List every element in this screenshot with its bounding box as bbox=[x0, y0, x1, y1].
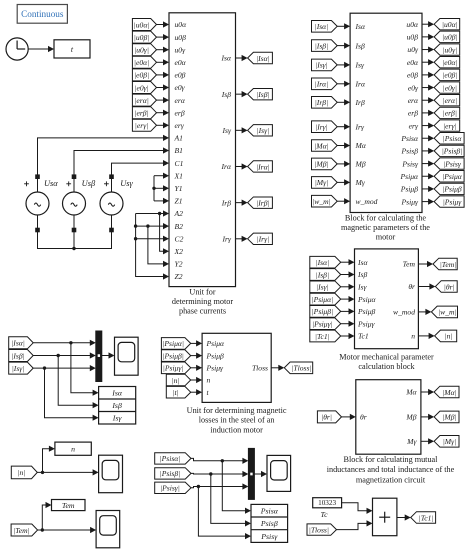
wire Usβ to B1 bbox=[74, 147, 169, 192]
wire U4 to |Mα| bbox=[421, 389, 434, 395]
svg-text:|Psiμβ|: |Psiμβ| bbox=[312, 307, 333, 316]
wire |Tem| to scope bbox=[38, 527, 97, 533]
svg-text:e0β: e0β bbox=[175, 71, 186, 80]
goto tag |Psiμα (U2 output) bbox=[434, 171, 464, 182]
svg-text:Isα: Isα bbox=[221, 54, 232, 63]
block U3 input port labels bbox=[357, 258, 377, 341]
svg-text:e0β: e0β bbox=[407, 71, 418, 80]
wire |Psiμγ| to U3 bbox=[341, 321, 355, 327]
wire |Isα| to mux bbox=[33, 340, 96, 346]
wire U2 to |Psiμα bbox=[422, 173, 434, 179]
svg-text:Mα: Mα bbox=[355, 141, 367, 150]
svg-text:erβ: erβ bbox=[408, 109, 418, 118]
from tag |Psisβ| (scope feed) bbox=[155, 468, 191, 479]
svg-text:e0α: e0α bbox=[407, 58, 419, 67]
svg-text:Isβ: Isβ bbox=[355, 41, 365, 50]
wire U2 to |Psiμβ bbox=[422, 186, 434, 192]
svg-text:Irα: Irα bbox=[221, 162, 232, 171]
svg-text:B1: B1 bbox=[175, 146, 183, 155]
wire A2 to X2 bbox=[160, 214, 169, 255]
wire U2 to |u0α| bbox=[422, 21, 434, 27]
svg-text:erα: erα bbox=[408, 96, 419, 105]
block U1 output port labels bbox=[221, 54, 232, 244]
wire |Tloss| to sum bbox=[337, 520, 373, 529]
svg-text:Block for calculating the: Block for calculating the bbox=[345, 214, 427, 223]
svg-text:Continuous: Continuous bbox=[21, 9, 64, 19]
svg-text:u0α: u0α bbox=[406, 20, 419, 29]
svg-text:|Isα|: |Isα| bbox=[315, 22, 329, 31]
svg-text:|Psiμγ: |Psiμγ bbox=[443, 197, 463, 206]
svg-text:|Psisα: |Psisα bbox=[443, 134, 463, 143]
svg-text:|Tloss|: |Tloss| bbox=[309, 525, 329, 534]
goto tag |Tem| (U3 output) bbox=[433, 258, 457, 270]
wire U3 to |Tem| bbox=[418, 261, 433, 267]
svg-text:|w_m|: |w_m| bbox=[312, 197, 331, 206]
goto tag |Isβ| bbox=[248, 88, 273, 99]
svg-text:Irγ: Irγ bbox=[355, 122, 365, 131]
block U2: Block for calculating the magnetic parameters of the motor bbox=[350, 13, 422, 212]
wire |t| to U5 bbox=[191, 389, 202, 395]
wire U2 to |erγ| bbox=[422, 122, 434, 128]
svg-text:|Psisβ|: |Psisβ| bbox=[160, 469, 181, 478]
from tag |e0β| bbox=[132, 69, 156, 81]
svg-text:Isβ: Isβ bbox=[357, 270, 367, 279]
svg-text:Mγ: Mγ bbox=[355, 178, 366, 187]
svg-text:Usα: Usα bbox=[44, 179, 58, 188]
svg-text:C2: C2 bbox=[175, 234, 184, 243]
svg-text:Mγ: Mγ bbox=[406, 437, 417, 446]
svg-text:|Tem|: |Tem| bbox=[440, 260, 457, 269]
svg-text:Isα: Isα bbox=[357, 258, 368, 267]
wire branch to Psisα display bbox=[222, 461, 251, 514]
svg-text:Isα: Isα bbox=[111, 389, 123, 398]
svg-text:losses in the steel of an: losses in the steel of an bbox=[199, 416, 275, 425]
caption Tc of constant block bbox=[320, 510, 328, 519]
svg-text:|erα|: |erα| bbox=[134, 96, 149, 105]
svg-text:Unit for: Unit for bbox=[189, 288, 215, 297]
wire U2 to |e0β| bbox=[422, 72, 434, 78]
svg-text:n: n bbox=[411, 332, 415, 341]
wire |erα| to U1 bbox=[157, 97, 170, 103]
display block Tem bbox=[52, 500, 86, 511]
svg-text:|u0γ|: |u0γ| bbox=[442, 45, 457, 54]
wire branch to Psisγ display bbox=[198, 487, 251, 540]
from tag |θr| (U4 input) bbox=[317, 411, 341, 423]
goto tag |e0α| (U2 output) bbox=[434, 57, 460, 68]
goto tag |u0β| (U2 output) bbox=[434, 31, 460, 42]
block U3 output port labels bbox=[393, 260, 415, 341]
svg-text:|Isα|: |Isα| bbox=[11, 339, 25, 348]
wire B2 input bbox=[136, 223, 169, 229]
svg-text:motor: motor bbox=[376, 233, 396, 242]
svg-text:|θr|: |θr| bbox=[321, 413, 332, 422]
from tag |Isγ| (U3 input) bbox=[310, 281, 341, 293]
wire branch to Tem display bbox=[42, 502, 51, 530]
svg-text:Z2: Z2 bbox=[175, 272, 183, 281]
svg-text:|u0α|: |u0α| bbox=[442, 20, 458, 29]
wire |Irγ| to U2 bbox=[337, 124, 350, 130]
svg-text:|e0γ|: |e0γ| bbox=[443, 83, 457, 92]
svg-text:erγ: erγ bbox=[409, 121, 419, 130]
svg-text:induction motor: induction motor bbox=[210, 425, 263, 434]
svg-text:Psiμβ: Psiμβ bbox=[357, 307, 376, 316]
wire |u0β| to U1 bbox=[157, 34, 170, 40]
from tag |Isα| (scope feed) bbox=[9, 337, 34, 349]
display blocks Isα Isβ Isγ bbox=[99, 387, 136, 425]
svg-text:|Psisγ|: |Psisγ| bbox=[160, 484, 180, 493]
svg-text:A1: A1 bbox=[174, 134, 183, 143]
wire |u0α| to U1 bbox=[157, 21, 170, 27]
svg-text:Isγ: Isγ bbox=[222, 126, 232, 135]
block U3: Motor mechanical parameter calculation block bbox=[355, 249, 419, 349]
wire |Isβ| to mux bbox=[33, 352, 96, 358]
caption of block U5 bbox=[187, 406, 287, 435]
svg-text:Y1: Y1 bbox=[175, 184, 183, 193]
svg-text:n: n bbox=[207, 376, 211, 385]
svg-text:Tc: Tc bbox=[320, 510, 328, 519]
annotation box 'Continuous' bbox=[17, 5, 67, 24]
wire branch to Isβ display bbox=[58, 356, 98, 409]
svg-text:Mβ: Mβ bbox=[405, 413, 416, 422]
svg-text:|Mγ|: |Mγ| bbox=[315, 178, 329, 187]
display blocks Psisα Psisβ Psisγ bbox=[251, 504, 288, 542]
svg-text:|Isα|: |Isα| bbox=[316, 258, 330, 267]
svg-text:w_mod: w_mod bbox=[393, 308, 415, 317]
wire |Mβ| to U2 bbox=[337, 161, 350, 167]
svg-text:phase currents: phase currents bbox=[179, 307, 226, 316]
from tag |erβ| bbox=[132, 107, 156, 119]
voltage source Usα bbox=[24, 174, 58, 232]
wire U4 to |Mγ| bbox=[421, 438, 434, 444]
from tag |Psiμγ| (U5 input) bbox=[161, 362, 190, 374]
svg-text:|Isγ|: |Isγ| bbox=[12, 364, 25, 373]
wire U2 to |e0α| bbox=[422, 59, 434, 65]
goto tag |u0α| (U2 output) bbox=[434, 19, 460, 30]
wire |e0γ| to U1 bbox=[157, 84, 170, 90]
svg-text:|Psiμγ|: |Psiμγ| bbox=[312, 320, 333, 329]
svg-text:|Mα|: |Mα| bbox=[442, 388, 457, 397]
wire U5 to |Tloss| bbox=[271, 365, 284, 371]
wire source star bus bbox=[38, 215, 112, 250]
wire |Irβ| to U2 bbox=[337, 99, 350, 105]
svg-text:|n|: |n| bbox=[172, 376, 180, 385]
goto tag |Isα| bbox=[248, 52, 273, 63]
svg-text:|u0γ|: |u0γ| bbox=[134, 46, 149, 55]
svg-text:Psisγ: Psisγ bbox=[401, 159, 419, 168]
wire U2 to |erα| bbox=[422, 97, 434, 103]
wire |erβ| to U1 bbox=[157, 110, 170, 116]
from tag |Mβ| (U2 input) bbox=[312, 158, 338, 170]
wire U1 to |Irα| bbox=[236, 163, 248, 169]
wire U2 to |Psisβ| bbox=[422, 148, 434, 154]
svg-text:|Psisγ: |Psisγ bbox=[443, 159, 462, 168]
svg-text:Irβ: Irβ bbox=[355, 98, 365, 107]
wire mux to Is scope bbox=[102, 352, 115, 358]
svg-text:|erγ|: |erγ| bbox=[135, 121, 149, 130]
wire B2 to Y2 bbox=[148, 226, 169, 267]
svg-text:e0γ: e0γ bbox=[175, 83, 186, 92]
from tag |Psiμβ| (U5 input) bbox=[161, 350, 190, 362]
svg-text:erα: erα bbox=[175, 96, 186, 105]
wire U1 to |Isα| bbox=[236, 55, 248, 61]
svg-text:Block for calculating mutual: Block for calculating mutual bbox=[344, 455, 439, 464]
svg-text:|t|: |t| bbox=[172, 388, 178, 397]
block U1 input port labels bbox=[174, 20, 188, 281]
svg-text:Psiμα: Psiμα bbox=[399, 172, 419, 181]
svg-text:Isγ: Isγ bbox=[112, 414, 123, 423]
clock block bbox=[6, 38, 28, 60]
from tag |Tc1| (U3 input) bbox=[310, 330, 341, 342]
svg-text:|Irγ|: |Irγ| bbox=[315, 123, 328, 132]
svg-text:|Tc1|: |Tc1| bbox=[315, 332, 330, 341]
svg-text:|Mβ|: |Mβ| bbox=[314, 160, 328, 169]
svg-text:|Psiμα|: |Psiμα| bbox=[162, 339, 184, 348]
svg-text:|Irα|: |Irα| bbox=[315, 80, 329, 89]
svg-text:erβ: erβ bbox=[175, 108, 185, 117]
from tag |Psiμγ| (U3 input) bbox=[310, 318, 341, 330]
svg-text:Y2: Y2 bbox=[175, 260, 183, 269]
wire |w_m| to U2 bbox=[337, 198, 350, 204]
svg-text:Unit for determining magnetic: Unit for determining magnetic bbox=[187, 406, 287, 415]
wire U2 to |u0β| bbox=[422, 34, 434, 40]
svg-text:e0γ: e0γ bbox=[408, 83, 419, 92]
svg-text:|e0α|: |e0α| bbox=[134, 58, 149, 67]
wire U1 to |Irγ| bbox=[236, 236, 248, 242]
wire |e0α| to U1 bbox=[157, 59, 170, 65]
svg-text:|Isα|: |Isα| bbox=[256, 54, 270, 63]
from tag |n| (U5 input) bbox=[166, 374, 190, 386]
svg-text:inductances and total inductan: inductances and total inductance of the bbox=[327, 465, 455, 474]
svg-text:|n|: |n| bbox=[445, 332, 453, 341]
wire U2 to |Psiμγ bbox=[422, 198, 434, 204]
svg-text:|erγ|: |erγ| bbox=[443, 121, 457, 130]
svg-text:Isα: Isα bbox=[355, 22, 366, 31]
caption of block U3 bbox=[339, 353, 434, 372]
from tag |Irα| (U2 input) bbox=[312, 78, 338, 90]
from tag |n| (display feed) bbox=[11, 466, 37, 479]
block t (to workspace) bbox=[54, 40, 90, 58]
goto tag |Mγ| (U4 output) bbox=[434, 436, 459, 448]
svg-text:|u0β|: |u0β| bbox=[134, 33, 150, 42]
svg-text:Tem: Tem bbox=[62, 501, 75, 510]
svg-text:C1: C1 bbox=[175, 159, 184, 168]
voltage source Usβ bbox=[63, 174, 96, 232]
goto tag |u0γ| (U2 output) bbox=[434, 44, 460, 55]
block U1: Unit for determining motor phase currents bbox=[169, 13, 236, 287]
wire 10323 to sum bbox=[342, 503, 373, 514]
from tag |Tem| (display feed) bbox=[11, 524, 37, 536]
svg-text:θr: θr bbox=[408, 282, 415, 291]
svg-text:calculation block: calculation block bbox=[358, 362, 415, 371]
svg-text:u0γ: u0γ bbox=[407, 45, 419, 54]
wire |Mγ| to U2 bbox=[337, 179, 350, 185]
from tag |u0β| bbox=[132, 31, 156, 43]
wire |Psiμα| to U3 bbox=[341, 296, 355, 302]
from tag |Psisα| (scope feed) bbox=[155, 453, 191, 464]
wire |Psisγ| to mux bbox=[191, 483, 248, 489]
from tag |Tloss| (sum input) bbox=[307, 524, 337, 535]
sum block bbox=[373, 498, 397, 536]
block U4 port labels bbox=[360, 388, 418, 446]
svg-text:n: n bbox=[71, 445, 75, 454]
caption of block U4 bbox=[327, 455, 455, 484]
wire |Isβ| to U2 bbox=[337, 43, 350, 49]
svg-text:erγ: erγ bbox=[175, 121, 185, 130]
from tag |Psiμα| (U5 input) bbox=[161, 338, 190, 350]
goto tag |Mβ| (U4 output) bbox=[434, 411, 459, 423]
wire U2 to |Psisα bbox=[422, 135, 434, 141]
goto tag |Psisγ (U2 output) bbox=[434, 158, 464, 169]
goto tag |Tc1| bbox=[411, 512, 436, 524]
svg-text:Psiμβ: Psiμβ bbox=[206, 351, 225, 360]
from tag |Psisγ| (scope feed) bbox=[155, 482, 191, 493]
wire |n| to U5 bbox=[191, 377, 202, 383]
block U2 input port labels bbox=[355, 22, 378, 206]
svg-text:|u0β|: |u0β| bbox=[442, 33, 458, 42]
svg-text:Isγ: Isγ bbox=[355, 61, 365, 70]
svg-text:|Psiμα: |Psiμα bbox=[442, 172, 463, 181]
svg-text:e0α: e0α bbox=[175, 58, 187, 67]
svg-text:|Psisβ|: |Psisβ| bbox=[442, 147, 463, 156]
svg-text:u0γ: u0γ bbox=[175, 45, 187, 54]
scope for Is signals bbox=[115, 337, 139, 375]
goto tag |erβ| (U2 output) bbox=[434, 107, 460, 118]
svg-text:w_mod: w_mod bbox=[356, 197, 378, 206]
wire |Psiμβ| to U5 bbox=[191, 353, 202, 359]
svg-text:|Isγ|: |Isγ| bbox=[315, 61, 328, 70]
svg-text:|Mγ|: |Mγ| bbox=[443, 437, 457, 446]
goto tag |Psisβ| (U2 output) bbox=[434, 145, 464, 156]
svg-text:Psiμγ: Psiμγ bbox=[206, 364, 225, 373]
svg-text:Usγ: Usγ bbox=[120, 179, 133, 188]
svg-text:|Psisα|: |Psisα| bbox=[160, 454, 181, 463]
wire U2 to |erβ| bbox=[422, 110, 434, 116]
svg-text:Tc1: Tc1 bbox=[358, 332, 369, 341]
from tag |Psiμβ| (U3 input) bbox=[310, 306, 341, 318]
svg-text:|Psiμγ|: |Psiμγ| bbox=[163, 364, 184, 373]
svg-text:Psiμα: Psiμα bbox=[206, 339, 226, 348]
wire U2 to |Psisγ bbox=[422, 160, 434, 166]
svg-text:|erα|: |erα| bbox=[443, 96, 458, 105]
svg-text:Motor mechanical parameter: Motor mechanical parameter bbox=[339, 353, 434, 362]
svg-text:Psiμγ: Psiμγ bbox=[357, 319, 376, 328]
goto tag |Psiμβ (U2 output) bbox=[434, 183, 464, 194]
from tag |Isγ| (U2 input) bbox=[312, 59, 338, 71]
caption of block U2 bbox=[341, 214, 430, 242]
wire |Isγ| to mux bbox=[33, 365, 96, 371]
display block n bbox=[55, 442, 91, 455]
from tag |e0α| bbox=[132, 56, 156, 68]
mux for Psis signals bbox=[248, 448, 254, 499]
goto tag |w_m| (U3 output) bbox=[431, 306, 457, 318]
from tag |Isα| (U2 input) bbox=[312, 21, 338, 33]
svg-text:|Psiμβ|: |Psiμβ| bbox=[162, 351, 183, 360]
block U2 output port labels bbox=[399, 20, 419, 206]
block U4: Block for calculating mutual inductances bbox=[356, 380, 421, 455]
wire branch to Isγ display bbox=[45, 368, 99, 421]
wire U3 to |θr| bbox=[418, 283, 435, 289]
from tag |e0γ| bbox=[132, 82, 156, 94]
wire Usα to A1 bbox=[38, 135, 170, 192]
svg-text:magnetic parameters of the: magnetic parameters of the bbox=[341, 223, 430, 232]
from tag |Isβ| (U3 input) bbox=[310, 269, 341, 281]
svg-text:X1: X1 bbox=[174, 171, 183, 180]
wire |Isγ| to U2 bbox=[337, 62, 350, 68]
block U5 input port labels bbox=[206, 339, 226, 397]
wire |e0β| to U1 bbox=[157, 72, 170, 78]
wire U3 to |w_m| bbox=[418, 309, 431, 315]
svg-text:|erβ|: |erβ| bbox=[134, 109, 148, 118]
svg-text:Psisγ: Psisγ bbox=[260, 532, 278, 541]
from tag |Isβ| (U2 input) bbox=[312, 40, 338, 52]
svg-text:Psiμβ: Psiμβ bbox=[400, 185, 419, 194]
svg-text:10323: 10323 bbox=[318, 499, 336, 507]
wire |Isα| to U3 bbox=[341, 259, 355, 265]
svg-text:u0β: u0β bbox=[175, 33, 187, 42]
from tag |w_m| (U2 input) bbox=[312, 195, 338, 207]
wire |u0γ| to U1 bbox=[157, 47, 170, 53]
svg-text:|Irβ|: |Irβ| bbox=[315, 98, 328, 107]
svg-text:|θr|: |θr| bbox=[444, 282, 455, 291]
wire |Isγ| to U3 bbox=[341, 284, 355, 290]
from tag |erγ| bbox=[132, 119, 156, 131]
svg-text:Psisβ: Psisβ bbox=[401, 147, 419, 156]
svg-text:Psiμα: Psiμα bbox=[357, 295, 377, 304]
block U5 output port label bbox=[252, 364, 268, 373]
wire |Psiμγ| to U5 bbox=[191, 365, 202, 371]
wire sum to |Tc1| bbox=[397, 514, 411, 520]
wire Usγ to C1 bbox=[112, 160, 170, 192]
wire U1 to |Irβ| bbox=[236, 200, 248, 206]
svg-text:Irα: Irα bbox=[355, 80, 366, 89]
svg-text:A2: A2 bbox=[174, 209, 184, 218]
svg-text:magnetization circuit: magnetization circuit bbox=[356, 475, 426, 484]
svg-text:Psiμγ: Psiμγ bbox=[400, 197, 419, 206]
wire U4 to |Mβ| bbox=[421, 414, 434, 420]
from tag |Isα| (U3 input) bbox=[310, 256, 341, 268]
svg-text:u0β: u0β bbox=[407, 33, 419, 42]
svg-text:B2: B2 bbox=[175, 222, 184, 231]
svg-text:|Tc1|: |Tc1| bbox=[419, 513, 434, 522]
svg-text:|Psiμα|: |Psiμα| bbox=[312, 295, 334, 304]
from tag |Irγ| (U2 input) bbox=[312, 121, 338, 133]
from tag |t| (U5 input) bbox=[166, 386, 190, 398]
svg-text:Irβ: Irβ bbox=[221, 198, 231, 207]
wire rotor bus to Z2 bbox=[134, 214, 169, 280]
wire |Isβ| to U3 bbox=[341, 271, 355, 277]
wire X1-Y1-Z1 star bbox=[152, 173, 169, 204]
svg-text:|Tloss|: |Tloss| bbox=[291, 364, 311, 373]
scope for Psis signals bbox=[267, 455, 291, 491]
svg-text:|Mβ|: |Mβ| bbox=[442, 413, 456, 422]
svg-text:u0α: u0α bbox=[175, 20, 188, 29]
wire U2 to |e0γ| bbox=[422, 84, 434, 90]
svg-text:Psisα: Psisα bbox=[260, 507, 279, 516]
wire U3 to |n| bbox=[418, 333, 434, 339]
wire branch to Isα display bbox=[71, 343, 99, 396]
svg-text:Isβ: Isβ bbox=[221, 90, 231, 99]
from tag |u0α| bbox=[132, 19, 156, 31]
svg-text:Isβ: Isβ bbox=[111, 401, 122, 410]
from tag |Mα| (U2 input) bbox=[312, 140, 338, 152]
svg-text:|Irβ|: |Irβ| bbox=[256, 198, 269, 207]
svg-text:Mβ: Mβ bbox=[355, 160, 366, 169]
wire |θr| to U4 bbox=[342, 414, 356, 420]
svg-text:|Isβ|: |Isβ| bbox=[11, 351, 24, 360]
goto tag |erα| (U2 output) bbox=[434, 95, 460, 106]
from tag |Isβ| (scope feed) bbox=[9, 350, 34, 362]
wire U1 to |Isγ| bbox=[236, 127, 248, 133]
